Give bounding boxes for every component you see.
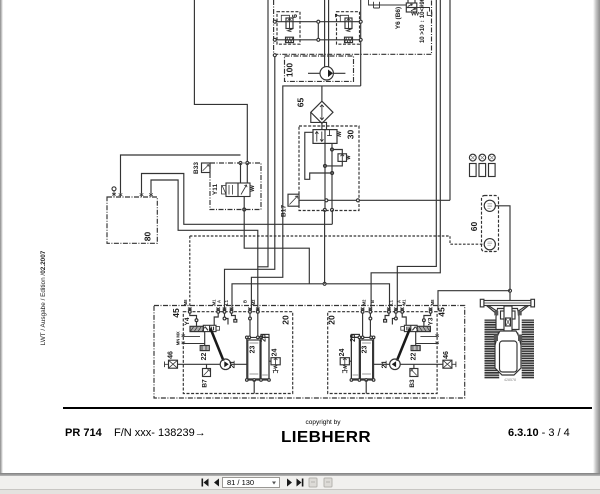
- svg-text:100: 100: [285, 63, 295, 77]
- wire B17 sensing line: [299, 199, 450, 201]
- svg-text:L1: L1: [389, 299, 394, 305]
- footer rule: [63, 407, 592, 409]
- svg-text:M8: M8: [430, 299, 435, 305]
- boundary box top system (dash-dot): [274, 0, 432, 54]
- orifice coil 6: [286, 37, 294, 42]
- tank drain upper: [369, 0, 407, 8]
- node bus-top: [273, 54, 276, 57]
- svg-text:10 >10 ↕ 10<#9650; 10: 10 >10 ↕ 10<#9650; 10: [420, 0, 426, 43]
- test coupling T3: [488, 154, 495, 176]
- wire filter feed: [321, 86, 323, 101]
- wire tank return run to port B: [251, 86, 360, 311]
- wire pilot Z-line: [305, 132, 333, 179]
- port 80-2: [119, 193, 123, 197]
- wire rail 1: [275, 21, 361, 23]
- wire rail 2: [275, 39, 361, 41]
- gauge block 60 (dashed): [482, 196, 499, 252]
- svg-text:60: 60: [469, 222, 479, 232]
- svg-text:B: B: [243, 300, 248, 303]
- orifice coil 7: [345, 37, 353, 42]
- left window edge: [0, 0, 3, 473]
- first page button: [202, 479, 304, 487]
- svg-text:46: 46: [443, 351, 450, 359]
- node relief-top: [331, 148, 334, 151]
- page field: [223, 478, 280, 488]
- svg-text:25: 25: [350, 334, 357, 342]
- svg-text:Y11: Y11: [212, 184, 219, 196]
- dozer side pads: [494, 311, 498, 316]
- svg-text:MN: MN: [176, 339, 181, 346]
- wire 30 internals: [325, 143, 332, 210]
- breather port 80: [112, 187, 116, 197]
- node pilot: [331, 172, 334, 175]
- node rail2-bus: [273, 38, 276, 41]
- pressure switch B17: [288, 194, 299, 206]
- test coupling T1: [469, 154, 476, 176]
- wire gauge feed run (measuring line): [190, 236, 484, 310]
- dozer push arms: [487, 306, 529, 315]
- copyright: [263, 419, 383, 426]
- wire gauge G1 out: [495, 206, 510, 301]
- wire branch to M8 right: [438, 291, 510, 311]
- svg-text:B3: B3: [409, 379, 416, 388]
- relief valve box 6: [277, 12, 300, 45]
- node G1: [325, 199, 328, 202]
- tank unit box 80 (dash-dot): [107, 197, 157, 243]
- svg-text:MX: MX: [176, 331, 181, 337]
- wire right riser to tank run: [360, 0, 362, 86]
- pressure switch B33: [202, 163, 211, 173]
- pdf page bottom edge: [0, 473, 600, 476]
- svg-text:24: 24: [272, 349, 279, 357]
- footer right text: [508, 427, 570, 439]
- left travel pump block: [165, 308, 293, 394]
- valve V30: [313, 130, 341, 144]
- svg-text:M1: M1: [401, 299, 406, 305]
- wire filter bypass: [311, 112, 327, 129]
- wire Y11 drain: [244, 197, 309, 284]
- svg-text:B: B: [370, 300, 375, 303]
- port 80-3: [140, 193, 144, 197]
- relief valve RV7: [340, 15, 352, 32]
- wire 80 to Y11 supply: [121, 155, 241, 193]
- svg-text:Y4: Y4: [184, 317, 191, 325]
- node Y11-1: [239, 162, 242, 165]
- wire Y11 feeds: [241, 163, 248, 183]
- dozer top view: [480, 299, 534, 382]
- svg-text:M2: M2: [251, 299, 256, 305]
- dozer engine hood: [504, 306, 512, 331]
- tank drain Y6: [417, 8, 432, 16]
- travel drive boundary 45 (dash-dot): [154, 306, 465, 399]
- node rail1-bus: [273, 20, 276, 23]
- svg-text:21: 21: [230, 361, 237, 369]
- svg-text:23: 23: [250, 346, 257, 354]
- pump P100: [308, 67, 345, 80]
- footer left text: [65, 427, 102, 439]
- svg-text:B33: B33: [193, 162, 200, 174]
- node D: [359, 38, 362, 41]
- node M: [323, 282, 326, 285]
- node L: [509, 289, 512, 292]
- svg-text:80: 80: [143, 232, 153, 242]
- toolbar: [0, 476, 600, 489]
- node Y11-3: [243, 208, 246, 211]
- right window edge: [593, 0, 600, 473]
- wire supply down: [324, 210, 326, 284]
- dozer rear body: [495, 331, 521, 375]
- wire bus left vertical to port A: [225, 55, 275, 310]
- svg-text:Y6 (B6): Y6 (B6): [395, 7, 402, 29]
- svg-text:Y3: Y3: [428, 317, 435, 325]
- port 80-4: [149, 193, 153, 197]
- node B: [317, 38, 320, 41]
- svg-text:46: 46: [168, 351, 175, 359]
- filter 65: [311, 101, 333, 123]
- svg-text:B17: B17: [281, 205, 288, 217]
- relief valve RV6: [281, 15, 293, 32]
- valve Y11: [222, 183, 255, 197]
- gauge G1: [484, 200, 495, 211]
- pump unit box 100 (dash-dot): [285, 56, 354, 81]
- svg-text:M8: M8: [183, 299, 188, 305]
- wire 80 port3 to block 30: [142, 174, 333, 225]
- node E: [323, 208, 326, 211]
- control block 30 (dashed): [299, 126, 359, 211]
- svg-text:21: 21: [382, 361, 389, 369]
- LIEBHERR logo: [281, 429, 371, 447]
- svg-text:6: 6: [292, 14, 299, 18]
- node A: [317, 20, 320, 23]
- wire pump supply pair: [325, 0, 329, 67]
- dozer front frame: [496, 309, 519, 330]
- svg-text:L1: L1: [224, 299, 229, 305]
- dozer tracks: [485, 320, 535, 379]
- wire riser 1: [397, 0, 436, 310]
- node G2: [356, 199, 359, 202]
- svg-text:45: 45: [171, 308, 181, 318]
- svg-text:B7: B7: [202, 379, 209, 388]
- svg-text:23: 23: [362, 346, 369, 354]
- wire riser to Y11: [194, 0, 247, 163]
- right travel pump block (mirrored): [328, 308, 456, 394]
- svg-text:22: 22: [201, 353, 208, 361]
- wire 80 port4 drain: [151, 180, 258, 267]
- dozer blade: [482, 301, 534, 306]
- wire pump inlet branch: [317, 22, 319, 40]
- pilot valve box Y11 (dash-dot): [210, 163, 261, 210]
- svg-text:20: 20: [327, 315, 337, 325]
- svg-text:30: 30: [346, 130, 356, 140]
- svg-text:20: 20: [281, 315, 291, 325]
- svg-text:65: 65: [296, 98, 306, 108]
- port labels left: [176, 299, 257, 345]
- test coupling T2: [479, 154, 486, 176]
- relief valve box 7: [335, 12, 360, 45]
- svg-text:A: A: [216, 300, 221, 303]
- node relief-drain: [324, 164, 327, 167]
- wire return header to L1: [232, 284, 390, 311]
- svg-text:22: 22: [411, 353, 418, 361]
- svg-text:24: 24: [339, 349, 346, 357]
- svg-text:81 / 130: 81 / 130: [227, 478, 254, 487]
- node F: [331, 208, 334, 211]
- svg-text:M2: M2: [362, 299, 367, 305]
- node C: [359, 20, 362, 23]
- vertical edition text: [0, 291, 103, 305]
- node Y11-2: [246, 162, 249, 165]
- wire riser 3: [449, 0, 451, 200]
- svg-text:428578: 428578: [504, 378, 516, 382]
- svg-text:25: 25: [261, 334, 268, 342]
- gauge G2: [484, 239, 495, 250]
- disabled view buttons: [309, 478, 332, 487]
- wire riser far left: [258, 0, 268, 310]
- relief valve in 30: [325, 150, 350, 166]
- port labels right: [362, 299, 435, 305]
- svg-text:45: 45: [437, 307, 447, 317]
- wire riser 2: [371, 0, 440, 310]
- solenoid valve Y6: [406, 0, 418, 15]
- wire filter outlet: [321, 123, 323, 129]
